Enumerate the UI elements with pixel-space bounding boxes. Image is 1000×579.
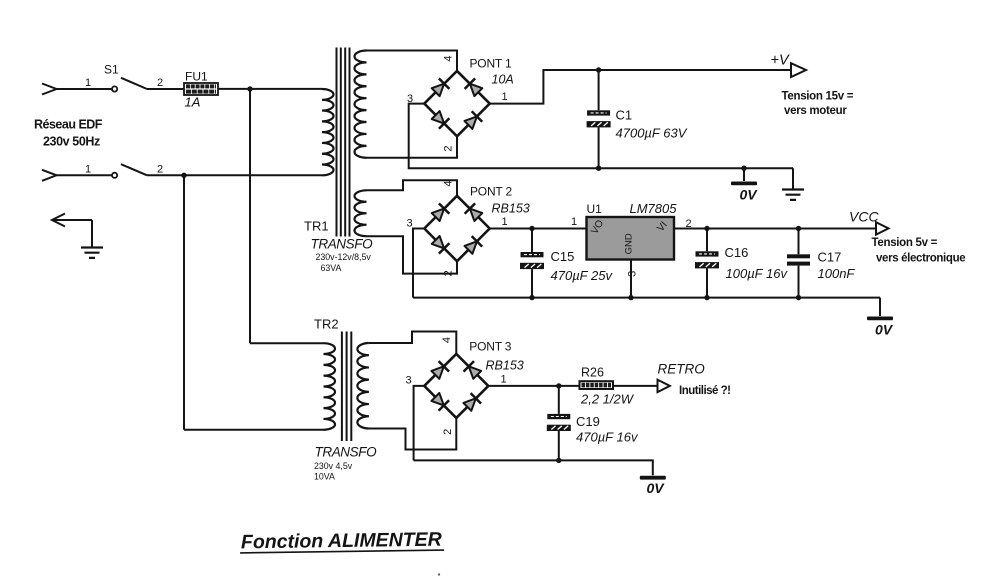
wire mains to TR2 primary bottom — [184, 429, 324, 431]
svg-text:1: 1 — [501, 91, 507, 103]
svg-text:470µF 16v: 470µF 16v — [576, 430, 639, 445]
capacitor C17 — [796, 226, 801, 231]
svg-text:C19: C19 — [576, 414, 600, 429]
svg-text:470µF 25v: 470µF 25v — [551, 268, 614, 283]
wire 0V rail down to earth — [792, 168, 794, 189]
node: fuse output junction — [247, 86, 252, 91]
svg-text:1: 1 — [571, 216, 577, 228]
regulator U1 LM7805 — [587, 217, 675, 260]
svg-text:LM7805: LM7805 — [630, 201, 678, 216]
svg-text:0V: 0V — [739, 187, 758, 203]
svg-text:vers moteur: vers moteur — [784, 105, 847, 117]
wire R26 to RETRO arrow — [613, 385, 658, 387]
resistor R26 — [580, 381, 614, 389]
svg-text:U1: U1 — [587, 202, 603, 216]
transformer TR2 primary winding — [324, 343, 336, 430]
svg-text:2,2 1/2W: 2,2 1/2W — [580, 392, 635, 407]
input connector bottom — [42, 170, 57, 181]
svg-text:1A: 1A — [185, 95, 201, 110]
node: 0V stub junction — [741, 166, 746, 171]
svg-text:4: 4 — [441, 337, 453, 343]
svg-text:3: 3 — [407, 93, 413, 105]
svg-text:100nF: 100nF — [818, 266, 856, 281]
transformer TR1 core — [337, 48, 350, 237]
wire secondary2 bottom to PONT2 pin 2 — [367, 236, 458, 273]
0V rail row 2 — [413, 298, 880, 316]
input connector top — [42, 84, 57, 95]
0V rail row 3 — [414, 460, 653, 475]
transformer TR1 secondary 1 — [355, 51, 367, 158]
svg-text:10VA: 10VA — [314, 471, 335, 481]
svg-text:FU1: FU1 — [185, 70, 208, 84]
svg-text:3: 3 — [406, 218, 412, 230]
svg-text:0V: 0V — [875, 322, 894, 338]
wire TR2 secondary bottom to PONT3 pin 2 — [369, 418, 456, 450]
0V symbol row 3 — [640, 476, 666, 480]
node: C19 top junction — [556, 383, 561, 388]
svg-text:C1: C1 — [616, 108, 633, 123]
svg-text:230v-12v/8,5v: 230v-12v/8,5v — [316, 252, 372, 262]
transformer TR2 secondary — [357, 343, 369, 428]
switch lever bottom — [121, 164, 147, 175]
switch S1 contact circle top — [112, 86, 117, 91]
speck — [438, 573, 440, 575]
svg-text:GND: GND — [624, 233, 635, 254]
capacitor C15 — [529, 226, 534, 231]
svg-text:RETRO: RETRO — [658, 362, 706, 377]
svg-text:TR2: TR2 — [314, 317, 339, 332]
wire — [57, 174, 113, 176]
svg-text:2: 2 — [442, 145, 454, 151]
switch S1 lever top — [121, 78, 147, 89]
ground (earth) top right — [782, 190, 804, 200]
svg-text:2: 2 — [685, 218, 691, 230]
svg-text:2: 2 — [157, 163, 163, 175]
RETRO output arrow — [658, 380, 670, 392]
node: +V / C1 junction — [596, 67, 601, 72]
wire U1 pin 3 to rail — [630, 260, 632, 298]
svg-text:1: 1 — [85, 163, 91, 175]
svg-text:R26: R26 — [581, 365, 604, 379]
svg-text:TRANSFO: TRANSFO — [311, 237, 374, 252]
wire PONT3 pin 1 to R26 — [488, 385, 579, 387]
svg-text:Tension 5v =: Tension 5v = — [872, 237, 938, 249]
wire PONT2 pin 3 to 0V rail — [413, 229, 424, 298]
transformer TR1 secondary 2 — [355, 190, 367, 236]
svg-text:230v 4,5v: 230v 4,5v — [314, 461, 353, 471]
svg-text:Réseau EDF: Réseau EDF — [34, 118, 103, 132]
svg-text:C16: C16 — [725, 245, 749, 260]
svg-text:3: 3 — [406, 375, 412, 387]
earth arrow symbol — [52, 214, 65, 227]
svg-text:VCC: VCC — [849, 209, 879, 225]
svg-text:vers électronique: vers électronique — [876, 253, 965, 265]
fuse FU1 — [184, 83, 218, 95]
node: C19 bottom junction — [556, 458, 561, 463]
wire vertical to TR2 primary top — [249, 89, 251, 343]
wire — [147, 88, 184, 90]
svg-text:1: 1 — [501, 216, 507, 228]
wire PONT1 pin 3 to 0V rail — [409, 104, 793, 169]
svg-text:4: 4 — [442, 55, 454, 61]
svg-text:TRANSFO: TRANSFO — [315, 445, 378, 460]
transformer TR2 core — [342, 332, 351, 442]
svg-text:0V: 0V — [646, 480, 665, 496]
svg-text:Fonction ALIMENTER: Fonction ALIMENTER — [241, 529, 442, 554]
wire secondary2 top to PONT2 pin 4 — [367, 180, 458, 196]
bridge rectifier PONT3 — [424, 354, 488, 418]
wire PONT2 pin 1 to U1 — [490, 228, 587, 230]
svg-text:PONT 1: PONT 1 — [470, 57, 512, 71]
capacitor C16 — [704, 226, 709, 231]
wire U1 pin 2 to VCC — [674, 228, 876, 230]
svg-text:C17: C17 — [818, 250, 842, 265]
wire fuse to transformer — [218, 88, 322, 90]
capacitor C1 — [598, 70, 600, 168]
switch contact circle bottom — [112, 173, 117, 178]
bridge rectifier PONT2 — [424, 196, 489, 261]
svg-text:1: 1 — [85, 77, 91, 89]
svg-text:2: 2 — [442, 270, 454, 276]
wire TR2 secondary top to PONT3 pin 4 — [369, 332, 456, 354]
svg-text:3: 3 — [627, 271, 639, 277]
svg-text:PONT 2: PONT 2 — [470, 185, 512, 199]
svg-text:230v 50Hz: 230v 50Hz — [43, 135, 100, 149]
wire secondary1 bottom to PONT1 pin 2 — [367, 136, 458, 158]
svg-text:RB153: RB153 — [486, 359, 524, 373]
node: C1 bottom junction — [596, 166, 601, 171]
wire to TR1 primary bottom — [147, 174, 322, 176]
wire — [57, 88, 113, 90]
svg-text:4700µF 63V: 4700µF 63V — [616, 126, 688, 141]
transformer TR1 primary winding — [322, 89, 334, 175]
svg-text:1: 1 — [500, 373, 506, 385]
svg-text:PONT 3: PONT 3 — [469, 340, 511, 354]
svg-text:Tension 15v =: Tension 15v = — [782, 91, 854, 103]
svg-text:100µF 16v: 100µF 16v — [726, 266, 789, 281]
wire vertical to TR2 primary bottom — [183, 175, 185, 429]
VCC output arrow — [876, 222, 889, 234]
bridge rectifier PONT1 — [424, 71, 489, 136]
node: neutral junction — [181, 173, 186, 178]
svg-text:4: 4 — [442, 180, 454, 186]
wire secondary1 top to PONT1 pin 4 — [367, 51, 458, 71]
svg-text:10A: 10A — [492, 73, 514, 87]
title Fonction ALIMENTER — [240, 529, 444, 554]
capacitor C19 — [558, 386, 560, 461]
wire mains to TR2 primary top — [250, 342, 324, 344]
svg-text:TR1: TR1 — [304, 219, 329, 234]
svg-text:C15: C15 — [551, 249, 575, 264]
wire PONT3 pin 3 to 0V rail — [414, 386, 425, 461]
0V symbol top row — [743, 168, 745, 181]
svg-text:Inutilisé ?!: Inutilisé ?! — [679, 385, 731, 397]
svg-text:+V: +V — [771, 53, 790, 69]
svg-text:2: 2 — [157, 77, 163, 89]
0V symbol row 2 — [867, 317, 893, 321]
ground (mains earth) — [81, 248, 103, 258]
svg-text:S1: S1 — [104, 63, 119, 77]
svg-text:63VA: 63VA — [321, 263, 342, 273]
wire PONT1 pin 1 to +V — [490, 70, 791, 104]
rail junction dots row 2 — [529, 295, 534, 300]
+V output arrow — [791, 63, 806, 77]
svg-text:2: 2 — [442, 429, 454, 435]
svg-text:RB153: RB153 — [492, 202, 530, 216]
